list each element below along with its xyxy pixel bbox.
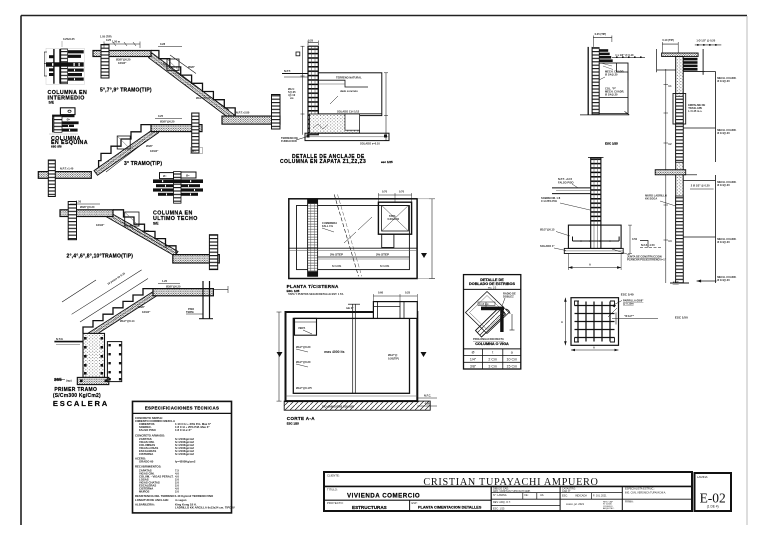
svg-text:A: A	[593, 346, 595, 350]
svg-text:2% STEP: 2% STEP	[376, 253, 389, 257]
left dim line	[302, 46, 304, 135]
svg-text:0.70: 0.70	[399, 190, 405, 194]
svg-text:fy=4200Kg/cm2: fy=4200Kg/cm2	[175, 460, 196, 464]
left small square	[296, 52, 300, 56]
svg-text:DOBLEZ: DOBLEZ	[503, 294, 514, 298]
bottom dim	[568, 267, 621, 269]
zapata stipple	[310, 114, 360, 133]
diamond	[466, 292, 510, 334]
rebar hook	[573, 240, 620, 242]
left column	[101, 45, 109, 79]
table	[464, 348, 521, 350]
TITLE BLOCK	[324, 472, 692, 511]
svg-text:ESP:: ESP:	[412, 501, 418, 505]
svg-text:esc 1/25: esc 1/25	[381, 160, 393, 164]
svg-text:A: A	[589, 263, 591, 267]
svg-text:ESC 1/25: ESC 1/25	[287, 421, 299, 425]
top landing slab (right)	[151, 125, 202, 132]
ladder box detail on wall	[673, 94, 686, 125]
svg-text:ESPECIALISTA ESTRUC.:: ESPECIALISTA ESTRUC.:	[625, 488, 655, 491]
svg-text:Ø1/2"@0.14: Ø1/2"@0.14	[120, 319, 135, 323]
svg-text:COLUMNA O VIGA: COLUMNA O VIGA	[475, 342, 509, 346]
svg-text:Ø=: Ø=	[163, 174, 167, 178]
svg-text:Ø3/8"@0.20: Ø3/8"@0.20	[166, 284, 181, 288]
top landing slab	[153, 289, 213, 296]
svg-text:N.P.T.+1.40: N.P.T.+1.40	[60, 167, 74, 171]
bent bar: horizontal + vertical + diagonal	[481, 307, 504, 311]
top landing slab	[93, 51, 151, 57]
svg-text:SOLADO e=0.10: SOLADO e=0.10	[360, 142, 380, 146]
svg-text:1 Ø 1/2" @ 0.20: 1 Ø 1/2" @ 0.20	[696, 39, 715, 43]
right column	[272, 95, 281, 130]
ESPECIFICACIONES TECNICAS box	[133, 401, 235, 513]
svg-text:NPT: NPT	[673, 280, 679, 284]
dims above landing	[104, 43, 140, 45]
diagonal dashed	[334, 194, 358, 276]
svg-text:0.25: 0.25	[308, 39, 314, 43]
svg-text:15 Cm: 15 Cm	[507, 364, 518, 368]
svg-text:N°: LAMINA: N°: LAMINA	[493, 494, 507, 497]
svg-text:"Ø 1/2"": "Ø 1/2""	[624, 314, 635, 318]
svg-text:FIRMA:: FIRMA:	[625, 501, 634, 504]
right dims	[385, 73, 387, 141]
svg-text:FE:: FE:	[525, 494, 529, 497]
svg-text:S/E: S/E	[49, 101, 55, 105]
detail: COLUMNA EN INTERMEDIO	[44, 37, 87, 105]
svg-text:3/8": 3/8"	[470, 364, 477, 368]
svg-text:-3.95: -3.95	[424, 402, 430, 406]
plan: PLANTA T/CISTERNA	[287, 190, 435, 297]
svg-text:PLANCHA POLIESTIRENO e=1": PLANCHA POLIESTIRENO e=1"	[627, 258, 667, 262]
right thin column	[202, 281, 204, 319]
left slab	[552, 187, 591, 189]
svg-text:ESC 1/40: ESC 1/40	[621, 293, 634, 297]
svg-text:Ø 1/4@.20: Ø 1/4@.20	[717, 240, 730, 244]
svg-text:Ø3/8"@0.20: Ø3/8"@0.20	[160, 120, 175, 124]
top small dims	[373, 295, 417, 297]
svg-text:0.25 (TIP): 0.25 (TIP)	[595, 32, 607, 36]
svg-text:c/e: c/e	[290, 96, 294, 100]
detail: COLUMNA EN ULTIMO TECHO	[153, 172, 203, 226]
svg-text:2.0: 2.0	[175, 490, 179, 494]
small rect below	[382, 234, 394, 247]
svg-text:2 Cm: 2 Cm	[488, 358, 497, 362]
svg-text:VENT.: VENT.	[298, 326, 306, 330]
left column	[48, 160, 55, 197]
svg-text:S/E: S/E	[153, 222, 159, 226]
svg-text:TERRENO NATURAL: TERRENO NATURAL	[336, 76, 362, 80]
right room box storey 1	[683, 71, 715, 73]
top slab	[60, 210, 113, 217]
svg-text:FALSO PISO: FALSO PISO	[139, 428, 157, 432]
bottom band	[564, 248, 623, 253]
svg-text:cusco, jul. 2021: cusco, jul. 2021	[566, 502, 585, 506]
svg-text:fc=210Kg/cm2: fc=210Kg/cm2	[175, 452, 194, 456]
svg-text:0.28: 0.28	[160, 42, 166, 46]
svg-text:0.25: 0.25	[106, 38, 112, 42]
right bottom leaders	[417, 397, 437, 399]
leader + text	[612, 56, 645, 58]
svg-text:0.60x0.60: 0.60x0.60	[388, 217, 400, 221]
svg-text:S=1.0%: S=1.0%	[380, 264, 390, 268]
stair: 2,4,6,8,10 TRAMO(TIP)	[60, 200, 219, 270]
svg-text:ESC: 1/25: ESC: 1/25	[493, 508, 505, 511]
svg-text:COLUMNA EN ZAPATA Z1,Z2,Z: COLUMNA EN ZAPATA Z1,Z2,Z3	[280, 159, 366, 165]
svg-text:DETALLE DE: DETALLE DE	[480, 278, 504, 282]
left outer line top	[656, 49, 658, 72]
svg-text:10 Ø min.: 10 Ø min.	[479, 303, 490, 306]
svg-text:m segun: m segun	[175, 498, 187, 502]
svg-text:1:8 C:H e=4": 1:8 C:H e=4"	[175, 428, 192, 432]
right box	[599, 63, 628, 114]
svg-text:KK SOGA: KK SOGA	[645, 197, 657, 201]
bottom slab	[173, 255, 220, 263]
beam box detail	[167, 59, 179, 71]
bottom landing slab	[222, 116, 280, 124]
svg-text:FALSO PISO: FALSO PISO	[558, 180, 574, 184]
svg-text:1.50 m: 1.50 m	[112, 40, 121, 44]
svg-text:Ø3/8"@0.20: Ø3/8"@0.20	[80, 205, 95, 209]
second wall right	[107, 342, 121, 382]
svg-text:1.20: 1.20	[162, 279, 168, 283]
svg-text:SOLADO 4": SOLADO 4"	[540, 244, 555, 248]
svg-text:LAMINA:: LAMINA:	[697, 475, 708, 479]
svg-text:Ø: Ø	[472, 351, 475, 355]
svg-text:CISTERNA: CISTERNA	[139, 452, 153, 456]
svg-text:mas 4000 lts: mas 4000 lts	[324, 350, 344, 354]
top dim	[593, 37, 612, 39]
svg-text:CRISTIAN TUPAYACHI AMPUERO: CRISTIAN TUPAYACHI AMPUERO	[423, 477, 598, 488]
stair: PRIMER TRAMO + foundation	[53, 270, 228, 408]
svg-text:0.60: 0.60	[378, 291, 384, 295]
svg-text:a: a	[511, 351, 513, 355]
E-02 box	[695, 473, 732, 511]
brick steps right	[599, 49, 608, 52]
dims	[564, 298, 566, 346]
bottom foot	[670, 282, 689, 284]
svg-text:Ø3/8": Ø3/8"	[188, 65, 196, 69]
svg-text:1 x 1/2" @ 0.10: 1 x 1/2" @ 0.10	[615, 53, 634, 57]
svg-text:FALL 1%: FALL 1%	[322, 224, 334, 228]
svg-text:N.P.T.+2.80: N.P.T.+2.80	[236, 111, 250, 115]
right dim	[629, 225, 631, 253]
svg-text:Ø 1/4@.20: Ø 1/4@.20	[605, 73, 618, 77]
svg-text:S/C=300KG/CM2 SOLADO: S/C=300KG/CM2 SOLADO	[322, 405, 354, 409]
section: CORTE A-A (cisterna)	[277, 291, 438, 426]
svg-text:Ø1/2"@0.15: Ø1/2"@0.15	[540, 228, 555, 232]
svg-text:TITULO:: TITULO:	[327, 488, 338, 492]
svg-text:Ø3/8": Ø3/8"	[138, 305, 146, 309]
outer walls	[286, 312, 418, 401]
square detail top right	[378, 202, 411, 234]
svg-text:ING. CIVIL VERONICA TUPAYACHI: ING. CIVIL VERONICA TUPAYACHI A.	[625, 492, 666, 495]
svg-text:2°,4°,6°,8°,10°TRAMO(TIP): 2°,4°,6°,8°,10°TRAMO(TIP)	[67, 254, 134, 260]
interior horizontal lines	[289, 247, 417, 249]
column band	[308, 199, 318, 276]
svg-text:(1 DE 4): (1 DE 4)	[707, 504, 719, 508]
svg-text:ESC:: ESC:	[562, 494, 568, 497]
svg-text:ULTIMO TECHO: ULTIMO TECHO	[153, 216, 198, 222]
ladder rungs two storeys	[676, 96, 684, 162]
top dims	[378, 194, 411, 196]
svg-text:(typ): (typ)	[66, 379, 72, 383]
left long dim line	[665, 69, 667, 283]
beam box	[117, 136, 130, 149]
svg-text:Ø1/2"@0.20: Ø1/2"@0.20	[296, 345, 311, 349]
svg-text:ESC 1/25: ESC 1/25	[605, 142, 618, 146]
svg-text:N.F.C.: N.F.C.	[424, 394, 431, 398]
svg-text:CLIENTE:: CLIENTE:	[327, 474, 340, 478]
svg-text:ESC 1/50: ESC 1/50	[675, 316, 688, 320]
svg-text:1Ø1/2": 1Ø1/2"	[150, 149, 159, 153]
svg-text:N.T.N.: N.T.N.	[56, 337, 63, 341]
dims above landing	[158, 283, 180, 285]
svg-text:3° TRAMO(TIP): 3° TRAMO(TIP)	[124, 161, 162, 167]
dims	[155, 118, 182, 120]
svg-text:Ø1/2"@: Ø1/2"@	[388, 353, 398, 357]
interior top-left box	[295, 318, 317, 335]
svg-text:PROLONGACION RECTA: PROLONGACION RECTA	[473, 337, 504, 341]
svg-text:A: A	[561, 320, 563, 324]
svg-text:LONGITUD DE ANCLAJE:: LONGITUD DE ANCLAJE:	[135, 498, 169, 502]
svg-text:F: JUL 2021: F: JUL 2021	[593, 494, 607, 497]
right column	[209, 235, 217, 270]
svg-text:ESPECIFICACIONES TECNICAS: ESPECIFICACIONES TECNICAS	[145, 406, 219, 411]
svg-text:2% STEP: 2% STEP	[330, 253, 343, 257]
bottom slab	[38, 172, 91, 179]
second storey right box	[715, 175, 717, 283]
svg-text:0.25x0.25: 0.25x0.25	[63, 37, 75, 41]
svg-text:UA:: UA:	[540, 494, 544, 497]
top tick	[588, 157, 604, 159]
steps descending left	[83, 289, 153, 334]
left column	[68, 202, 76, 240]
top dim	[308, 42, 318, 44]
detail: wall on footing (middle right)	[540, 158, 667, 270]
svg-text:1Ø1/2": 1Ø1/2"	[118, 61, 127, 65]
steps descending right	[113, 210, 176, 253]
svg-text:@ 0.15m: @ 0.15m	[623, 302, 634, 306]
svg-text:REV: ARQ. O.T.: REV: ARQ. O.T.	[493, 501, 511, 504]
steps profile descending left	[99, 125, 151, 168]
svg-text:MUROS: MUROS	[139, 490, 150, 494]
top-right hatch notch	[373, 302, 417, 319]
svg-text:1/4": 1/4"	[470, 358, 477, 362]
ground hatch below	[284, 401, 430, 410]
beam box	[125, 212, 139, 226]
svg-text:5°,7°,9° TRAMO(TIP): 5°,7°,9° TRAMO(TIP)	[100, 88, 152, 94]
svg-text:TERM.: TERM.	[186, 310, 194, 314]
wall ladder	[591, 158, 601, 226]
svg-text:Ø=: Ø=	[67, 118, 71, 122]
detail: PARRILLA grid	[561, 293, 658, 352]
svg-text:1.50: 1.50	[76, 200, 82, 204]
foundation wall	[83, 333, 105, 377]
svg-text:10 Cm: 10 Cm	[507, 358, 518, 362]
svg-text:FUNDACION: FUNDACION	[281, 139, 297, 143]
svg-text:TAPA Y PUNTOS SEGUN DETALLE ES: TAPA Y PUNTOS SEGUN DETALLE EST. 1 TA.	[288, 292, 344, 296]
bottom slab lines	[286, 395, 418, 397]
svg-text:Ø=: Ø=	[186, 174, 190, 178]
svg-text:SOLADO C:H 1/12: SOLADO C:H 1/12	[337, 110, 360, 114]
svg-text:LADRILLO KK ARCILLA 9x13x24 cm: LADRILLO KK ARCILLA 9x13x24 cm. TIPO IV	[175, 506, 235, 510]
svg-text:0.25: 0.25	[158, 114, 164, 118]
svg-text:ESTRUCTURAS: ESTRUCTURAS	[352, 505, 387, 510]
svg-text:Ø1/2"@0.14: Ø1/2"@0.14	[196, 96, 211, 100]
svg-text:ARQUITEC.: ARQUITEC.	[603, 507, 615, 510]
detail: COLUMNA EN ESQUINA	[49, 108, 88, 149]
dims	[70, 203, 100, 205]
svg-text:L=0.45 m.s.: L=0.45 m.s.	[688, 109, 702, 113]
svg-text:tub 2": tub 2"	[346, 306, 354, 310]
right vertical line near top	[702, 49, 704, 75]
inner dots column	[679, 57, 681, 284]
svg-text:ALBAÑILERIA:: ALBAÑILERIA:	[135, 502, 155, 507]
center vertical pipe	[352, 304, 354, 393]
wall strip	[676, 57, 684, 284]
stair: 5,7,9 TRAMO(TIP)	[93, 35, 280, 130]
top dims	[662, 43, 678, 45]
floor lines at left	[282, 73, 308, 75]
svg-text:Ø3/8": Ø3/8"	[142, 229, 150, 233]
svg-text:0.70: 0.70	[382, 190, 388, 194]
stair: 3 TRAMO(TIP)	[38, 113, 202, 197]
svg-text:C:H 25% P.M.: C:H 25% P.M.	[541, 199, 558, 203]
svg-text:PROYECTO:: PROYECTO:	[327, 501, 344, 505]
svg-text:GRADO 60: GRADO 60	[139, 460, 154, 464]
svg-text:Ø1/2"@0.175: Ø1/2"@0.175	[296, 386, 312, 390]
svg-text:dado concreto: dado concreto	[340, 89, 358, 93]
svg-text:Ø 1/4@.20: Ø 1/4@.20	[717, 278, 730, 282]
tall wall section (far right)	[645, 38, 737, 320]
bottom band	[305, 133, 389, 140]
leader arrow diag	[358, 217, 372, 230]
right dim line	[431, 199, 433, 279]
svg-text:VIVIENDA COMERCIO: VIVIENDA COMERCIO	[347, 493, 420, 500]
right big box (sobrecimiento region)	[318, 73, 382, 116]
svg-text:N.P.T.: N.P.T.	[284, 69, 291, 73]
svg-text:CAD N°: CAD N°	[562, 490, 570, 493]
svg-text:Ø 1/4@.20: Ø 1/4@.20	[605, 93, 618, 97]
svg-text:1.05 (TIP): 1.05 (TIP)	[100, 35, 112, 39]
level mark right	[421, 253, 427, 258]
box: DETALLE DE DOBLADO DE ESTRIBOS	[464, 275, 521, 369]
svg-text:PLANTA CIMENTACION DETALLES: PLANTA CIMENTACION DETALLES	[418, 506, 482, 510]
svg-text:2 Ø 1/2" @ 0.20: 2 Ø 1/2" @ 0.20	[691, 184, 710, 188]
svg-text:Ø 1/4@.20: Ø 1/4@.20	[717, 131, 730, 135]
svg-text:1Ø1/2": 1Ø1/2"	[96, 223, 105, 227]
svg-text:0.50: 0.50	[632, 237, 638, 241]
left dim	[278, 312, 280, 401]
storey 2 cap	[655, 170, 686, 175]
svg-text:0.25: 0.25	[405, 291, 411, 295]
brick bars right of wall top	[684, 58, 698, 61]
svg-text:N.F.Z. -1.50: N.F.Z. -1.50	[641, 243, 655, 247]
dim lines parallel above steps	[72, 270, 142, 314]
svg-text:Ø 1/4@.20: Ø 1/4@.20	[717, 183, 730, 187]
svg-text:ARQ. CRISTIAN TUPAYACHI AMP.: ARQ. CRISTIAN TUPAYACHI AMP.	[493, 490, 531, 493]
svg-text:S=1.0%: S=1.0%	[332, 264, 342, 268]
detail: DETALLE DE ANCLAJE DE COLUMNA EN ZAPATA	[280, 39, 393, 166]
svg-text:0.20(TIP): 0.20(TIP)	[388, 357, 399, 361]
svg-text:ESCALERA: ESCALERA	[53, 399, 109, 408]
svg-text:0.10 (TIP): 0.10 (TIP)	[662, 38, 674, 42]
right column	[192, 113, 199, 153]
svg-text:t: t	[492, 351, 493, 355]
svg-text:INDICADA: INDICADA	[575, 494, 587, 497]
footing	[568, 225, 621, 248]
svg-text:NPT: NPT	[192, 149, 198, 153]
svg-text:E-02: E-02	[700, 491, 726, 506]
column ladder	[308, 46, 318, 135]
svg-text:Ø1/2"@0.20: Ø1/2"@0.20	[296, 360, 311, 364]
svg-text:3 Cm: 3 Cm	[488, 364, 497, 368]
hooks	[575, 301, 615, 342]
svg-text:1Ø1/2": 1Ø1/2"	[142, 310, 151, 314]
N.F.Z. dashed step	[640, 241, 648, 248]
rebar dots on wall edges	[80, 337, 107, 382]
svg-text:Ø3/8": Ø3/8"	[146, 144, 154, 148]
ground at left	[54, 341, 83, 343]
top slab band	[662, 53, 699, 57]
svg-text:Ø3/8"@0.20: Ø3/8"@0.20	[116, 58, 131, 62]
svg-text:Ø 1/4@.20: Ø 1/4@.20	[717, 79, 730, 83]
steps profile	[151, 51, 235, 117]
detail: wall corner (top, with brick steps)	[580, 32, 645, 146]
svg-text:esc s/e: esc s/e	[51, 145, 62, 149]
